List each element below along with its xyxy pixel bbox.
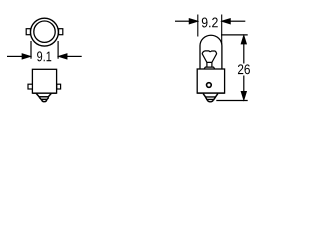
bayonet pin facing viewer (right figure) [207, 83, 212, 88]
base insulator step 2 (right figure) [206, 98, 215, 100]
extension line bottom of 26 dimension [216, 100, 247, 102]
filament stem pedestal (right figure) [207, 62, 212, 67]
filament stem fan (right figure) [202, 51, 216, 63]
extension line top of 26 dimension [221, 34, 248, 36]
dimension 9.1 left arrow [7, 54, 30, 59]
dimension 9.2 right arrow [222, 19, 245, 24]
extension line right of 9.1 dimension [57, 41, 59, 59]
dimension label 9.2 [202, 18, 218, 28]
base shell rectangle (right figure) [197, 69, 224, 93]
bayonet pin left (top view) [26, 29, 30, 35]
dimension 26 up arrow [241, 36, 246, 44]
dimension label 9.1 [37, 51, 51, 61]
lamp top view outer circle [31, 18, 59, 46]
bayonet pin right (top view) [59, 29, 63, 35]
base bayonet pin left (side view) [28, 84, 32, 89]
dimension 9.1 right arrow [59, 54, 82, 59]
base shell rectangle (side view of base, left figure) [32, 69, 56, 93]
lamp top view inner circle (glass bulb) [34, 21, 55, 42]
dimension 26 down arrow [241, 92, 246, 100]
base contact dome (left figure) [42, 100, 47, 102]
base contact dome (right figure) [207, 100, 213, 102]
dimension 26 vertical line lower segment [243, 76, 245, 93]
base insulator step 1 (left figure) [32, 93, 56, 97]
dimension label 26 [238, 64, 250, 74]
glass envelope outline (right figure) [200, 35, 222, 69]
extension line left of 9.1 dimension [30, 41, 32, 59]
base bayonet pin right (side view) [57, 84, 61, 89]
dimension 26 vertical line upper segment [243, 43, 245, 63]
base insulator step 2 (left figure) [39, 98, 48, 100]
base insulator step 1 (right figure) [197, 93, 224, 97]
extension line right of 9.2 dimension [221, 15, 223, 45]
filament stem foot (right figure) [204, 67, 214, 69]
dimension 9.2 left arrow [175, 19, 197, 24]
extension line left of 9.2 dimension [197, 15, 199, 37]
